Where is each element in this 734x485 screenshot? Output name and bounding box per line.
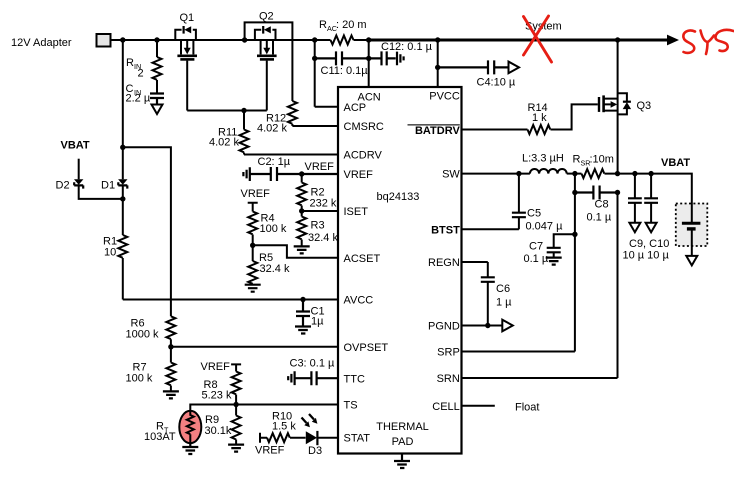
svg-text:4.02 k: 4.02 k (209, 137, 239, 149)
svg-text:VREF: VREF (344, 169, 374, 181)
svg-text:0.047 µ: 0.047 µ (526, 221, 564, 233)
capacitor C6 (481, 277, 512, 325)
svg-text:4.02 k: 4.02 k (257, 123, 287, 135)
resistor RSR (573, 154, 614, 179)
ground R7 (163, 391, 179, 398)
resistor R5 (248, 245, 290, 284)
capacitor C3 (290, 358, 339, 386)
ground CIN (open triangle) (152, 105, 163, 115)
transistor Q1 (175, 12, 197, 59)
ground PGND (open triangle right) (502, 320, 513, 332)
resistor R12 (257, 101, 297, 135)
wire inductor to RSR (567, 173, 582, 175)
node C11/C12/ACN junction (366, 56, 371, 61)
svg-text:100 k: 100 k (260, 223, 287, 235)
svg-text:10: 10 (104, 247, 116, 259)
svg-text:D2: D2 (56, 180, 70, 192)
ground C1 (295, 327, 311, 334)
node TS (233, 402, 238, 407)
node C7 junction (572, 232, 577, 237)
node gate bus junction (241, 108, 246, 113)
resistor RIN (126, 40, 162, 93)
resistor R4 (248, 212, 287, 246)
wire PGND (462, 325, 503, 327)
svg-text:CMSRC: CMSRC (344, 121, 384, 133)
wire VBAT stub (78, 159, 80, 180)
svg-text:R: R (319, 19, 327, 31)
wire Q1 gate (186, 61, 188, 111)
transistor Q2 (255, 11, 277, 60)
wire RSR to VBAT (605, 174, 692, 204)
node R2/R3 ISET (299, 208, 304, 213)
svg-text:VREF: VREF (255, 445, 285, 457)
wire SW (462, 173, 530, 175)
svg-text:232 k: 232 k (310, 198, 337, 210)
ground R5 (245, 285, 261, 292)
transistor Q3 (599, 93, 651, 114)
capacitor C10 (644, 174, 658, 223)
ground R9 (228, 445, 244, 452)
svg-text:VBAT: VBAT (661, 157, 690, 169)
system rail arrow (667, 35, 679, 46)
ground RT (182, 443, 198, 454)
svg-text:C4:10 µ: C4:10 µ (477, 77, 516, 89)
wire main input rail (111, 39, 369, 41)
red X annotation (524, 16, 552, 62)
svg-text:C8: C8 (595, 199, 609, 211)
wire VREF stub R10 (260, 433, 267, 443)
node C10 top (648, 171, 653, 176)
wire R14 to Q3 gate (551, 104, 598, 129)
svg-text:Float: Float (515, 402, 539, 414)
svg-text:C3: 0.1 µ: C3: 0.1 µ (290, 358, 336, 370)
capacitor C11 (315, 51, 369, 77)
wire BATDRV to R14 (462, 129, 528, 131)
node AVCC/C1 (300, 297, 305, 302)
resistor R10 (267, 411, 306, 443)
node C9 top (632, 171, 637, 176)
wire PVCC entry (437, 40, 439, 88)
resistor R11 (209, 111, 249, 155)
svg-text:PGND: PGND (428, 321, 460, 333)
ground R3 (294, 246, 310, 253)
node PGND/C6 (485, 323, 490, 328)
svg-text:103AT: 103AT (144, 431, 176, 443)
node R4/R5 (250, 243, 255, 248)
svg-text:SRN: SRN (437, 373, 460, 385)
ground C7 (546, 258, 562, 265)
svg-text:BTST: BTST (431, 224, 460, 236)
capacitor C12 (369, 41, 433, 65)
svg-text:R: R (573, 154, 581, 166)
battery pack (676, 204, 708, 256)
LED D3 (302, 414, 323, 457)
wire D2 to bus (79, 185, 123, 199)
input terminal square (97, 34, 111, 47)
svg-text:C11: 0.1µ: C11: 0.1µ (321, 65, 369, 77)
svg-text:REGN: REGN (428, 257, 460, 269)
svg-text:Q1: Q1 (180, 12, 195, 24)
svg-text:1µ: 1µ (311, 316, 324, 328)
svg-text:2: 2 (138, 68, 144, 80)
svg-text:32.4 k: 32.4 k (260, 263, 290, 275)
svg-text:1.5 k: 1.5 k (272, 421, 296, 433)
wire branch to R6 (123, 147, 171, 316)
ground C9 (open triangle) (629, 223, 640, 233)
node R6/R7 OVPSET (168, 344, 173, 349)
svg-text:Q3: Q3 (637, 100, 652, 112)
svg-text:10 µ 10 µ: 10 µ 10 µ (623, 250, 670, 262)
svg-text:TS: TS (344, 400, 358, 412)
ground battery (open triangle) (686, 256, 697, 266)
wire ACDRV (244, 154, 338, 156)
svg-text:R: R (126, 57, 134, 69)
resistor R3 (297, 211, 338, 246)
resistor R2 (297, 174, 337, 211)
ground C12 (sideways right) (397, 52, 404, 66)
wire ACP branch (315, 40, 338, 107)
resistor R6 (126, 316, 176, 347)
svg-text:Q2: Q2 (259, 11, 274, 23)
diode D1 (101, 179, 128, 191)
svg-text:2.2 µ: 2.2 µ (126, 93, 151, 105)
svg-text:100 k: 100 k (126, 373, 153, 385)
capacitor C4 (438, 60, 516, 88)
svg-text:C5: C5 (527, 208, 541, 220)
wire gate bus Q1-Q2 (187, 110, 267, 112)
ground C10 (open triangle) (646, 223, 657, 233)
node C11 left (312, 56, 317, 61)
svg-text:ISET: ISET (344, 206, 369, 218)
diode D2 (56, 179, 84, 191)
svg-text:1 µ: 1 µ (496, 297, 512, 309)
ground thermal pad (394, 454, 410, 469)
svg-text:VREF: VREF (201, 361, 231, 373)
svg-text:AVCC: AVCC (344, 295, 374, 307)
IC U1 bq24133 (338, 87, 462, 454)
ground C2 (sideways left) (243, 167, 249, 181)
svg-text:ACP: ACP (344, 102, 367, 114)
capacitor C9 (628, 174, 642, 223)
wire ACSET (253, 245, 338, 257)
wire BTST (462, 228, 519, 230)
capacitor C1 (296, 300, 325, 328)
label C9 C10 (623, 238, 670, 262)
svg-text:12V Adapter: 12V Adapter (11, 37, 72, 49)
wire VREF stub R4 (248, 203, 258, 212)
svg-text:BATDRV: BATDRV (415, 125, 460, 137)
svg-text:L:3.3 µH: L:3.3 µH (522, 153, 564, 165)
svg-text:30.1k: 30.1k (205, 425, 232, 437)
svg-text:ACDRV: ACDRV (344, 150, 383, 162)
svg-text:TTC: TTC (344, 374, 365, 386)
svg-text:R3: R3 (311, 220, 325, 232)
capacitor CIN (126, 83, 165, 105)
wire C8 branch left (574, 174, 576, 193)
ground C4 (open triangle right) (509, 62, 520, 74)
svg-text:D1: D1 (101, 180, 115, 192)
svg-text:SW: SW (442, 169, 460, 181)
node D1/D2 junction (120, 196, 125, 201)
red SYS annotation (683, 30, 733, 54)
svg-text:0.1 µ: 0.1 µ (587, 212, 612, 224)
resistor R1 (103, 185, 127, 299)
svg-text:VBAT: VBAT (61, 140, 90, 152)
wire STAT (317, 437, 338, 439)
capacitor C2 (250, 156, 338, 181)
svg-text:5.23 k: 5.23 k (202, 390, 232, 402)
resistor R14 (528, 102, 551, 134)
wire VREF stub R8 (231, 364, 241, 371)
svg-text:PVCC: PVCC (429, 91, 460, 103)
svg-text:0.1 µ: 0.1 µ (524, 253, 549, 265)
thermistor RT (144, 411, 201, 443)
ground C3 (sideways left) (288, 371, 294, 385)
wire OVPSET (171, 346, 338, 348)
svg-text:C7: C7 (529, 241, 543, 253)
inductor L 3.3uH (522, 153, 567, 174)
svg-text:C9, C10: C9, C10 (629, 238, 669, 250)
wire CMSRC (292, 125, 338, 127)
svg-text:SRP: SRP (437, 347, 460, 359)
svg-text:OVPSET: OVPSET (344, 342, 389, 354)
node RSR right (615, 171, 620, 176)
svg-text:VREF: VREF (241, 188, 271, 200)
wire AVCC (123, 299, 338, 301)
resistor R8 (202, 372, 241, 405)
wire left bus (122, 40, 124, 179)
svg-text:THERMAL: THERMAL (376, 421, 429, 433)
wire SRN riser (462, 193, 618, 379)
svg-text:32.4 k: 32.4 k (308, 232, 338, 244)
node SW/C5 (516, 171, 521, 176)
svg-text:1 k: 1 k (532, 112, 547, 124)
wire CELL (462, 405, 495, 407)
resistor RAC (319, 19, 367, 45)
svg-text:C2: 1µ: C2: 1µ (258, 156, 291, 168)
svg-text:D3: D3 (308, 445, 322, 457)
capacitor C7 (524, 234, 575, 265)
svg-text:bq24133: bq24133 (377, 191, 420, 203)
wire TS (236, 404, 338, 406)
svg-text:1000 k: 1000 k (126, 329, 160, 341)
node left bus branch (120, 145, 125, 150)
wire Q3 drain from system rail (617, 40, 619, 174)
node VREF/R2 (299, 171, 304, 176)
svg-text:C12: 0.1 µ: C12: 0.1 µ (381, 41, 433, 53)
wire CMSRC loop over Q2 (245, 22, 293, 101)
node: input junction dots (120, 37, 620, 42)
wire Q2 gate (266, 61, 268, 111)
resistor R7 (126, 347, 176, 392)
wire system rail (369, 39, 668, 42)
wire thermistor branch (190, 405, 236, 412)
capacitor C5 (512, 174, 563, 233)
svg-text:VREF: VREF (305, 161, 335, 173)
svg-text:: 20 m: : 20 m (336, 19, 367, 31)
wire REGN (462, 262, 488, 277)
svg-text:PAD: PAD (392, 436, 414, 448)
svg-text:C6: C6 (496, 283, 510, 295)
wire ISET (302, 210, 338, 212)
svg-text::10m: :10m (590, 154, 614, 166)
node PVCC/C4 (435, 65, 440, 70)
resistor R9 (205, 405, 241, 445)
node C8 left (572, 190, 577, 195)
svg-text:CELL: CELL (432, 401, 460, 413)
wire ACN entry (368, 40, 370, 88)
node C8 right (615, 190, 620, 195)
capacitor C8 (575, 186, 618, 224)
node L/RSR/C8 (572, 171, 577, 176)
svg-text:STAT: STAT (344, 433, 371, 445)
wire SRP riser (462, 193, 575, 352)
svg-text:ACSET: ACSET (344, 253, 381, 265)
